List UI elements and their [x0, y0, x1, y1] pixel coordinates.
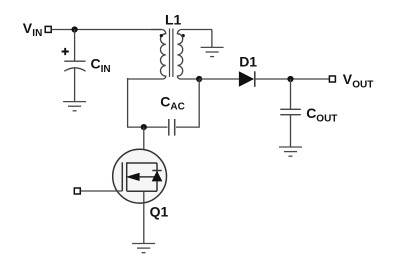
wire node D to COUT: [290, 79, 292, 109]
wire gate terminal to Q1: [81, 190, 123, 192]
inductor L1 core: [169, 29, 171, 78]
wire VIN to CIN: [74, 30, 76, 62]
L1 secondary phasing dot: [182, 34, 185, 37]
Q1 source internal bar: [127, 190, 157, 192]
node A junction dot: [72, 26, 78, 32]
ground below COUT: [279, 147, 302, 156]
wire COUT to ground: [290, 115, 292, 147]
diode D1: [239, 72, 253, 86]
svg-text:C: C: [91, 56, 101, 72]
wire node B down to CAC right: [176, 79, 199, 127]
inductor L1 primary winding: [128, 30, 166, 80]
wire node B to D1: [199, 78, 239, 80]
wire node C to Q1 drain: [143, 127, 145, 163]
node B junction dot: [196, 76, 202, 82]
svg-text:OUT: OUT: [316, 113, 337, 124]
wire VIN rail: [52, 29, 162, 31]
ground below CIN: [63, 102, 86, 111]
svg-text:Q1: Q1: [150, 204, 169, 220]
wire Q1 source to ground: [143, 191, 145, 243]
node VIN terminal: [45, 26, 51, 32]
svg-text:C: C: [306, 105, 316, 121]
Q1 body diode: [156, 163, 158, 191]
capacitor CAC: [168, 119, 170, 136]
wire CIN to ground: [74, 68, 76, 101]
Q1 channel bar: [126, 162, 128, 191]
svg-text:AC: AC: [170, 102, 184, 113]
wire CAC left to L1 primary bottom: [128, 78, 168, 127]
Q1 drain internal bar: [127, 162, 157, 164]
node VOUT terminal: [329, 76, 335, 82]
svg-text:C: C: [160, 93, 170, 109]
transistor Q1 body circle: [113, 149, 167, 203]
svg-text:V: V: [23, 20, 33, 36]
ground at L1 secondary top: [201, 47, 224, 56]
L1 primary phasing dot: [160, 34, 163, 37]
node D junction dot: [287, 76, 293, 82]
svg-text:V: V: [343, 71, 353, 87]
wire L1 secondary top to ground: [211, 30, 213, 48]
svg-text:IN: IN: [32, 28, 42, 39]
Q1 gate bar: [121, 162, 123, 191]
capacitor CIN plus sign: [62, 48, 69, 55]
svg-text:L1: L1: [165, 11, 182, 27]
node C junction dot: [141, 124, 147, 130]
Q1 substrate arrow: [127, 173, 139, 180]
capacitor COUT: [280, 108, 301, 110]
ground below Q1: [132, 244, 155, 253]
capacitor CIN: [64, 60, 85, 62]
svg-text:OUT: OUT: [352, 79, 373, 90]
svg-text:IN: IN: [101, 64, 111, 75]
inductor L1 secondary winding: [177, 30, 212, 80]
node gate terminal: [74, 188, 80, 194]
svg-text:D1: D1: [239, 53, 257, 69]
wire D1 to VOUT: [255, 78, 329, 80]
